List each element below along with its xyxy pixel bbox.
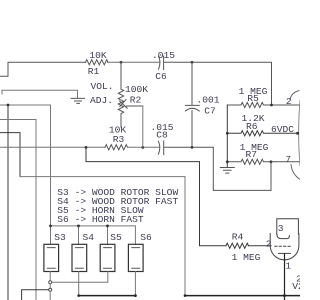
svg-text:.001: .001 bbox=[196, 95, 219, 106]
wire x50 vertical bbox=[50, 105, 52, 244]
top tube arcs bbox=[290, 91, 299, 100]
resistor R6 bbox=[227, 131, 297, 136]
resistor R5 bbox=[227, 102, 271, 107]
node x8 y105 bbox=[7, 104, 10, 107]
wire ground VOL bbox=[2, 90, 78, 97]
svg-text:10K: 10K bbox=[89, 50, 107, 61]
svg-text:R5: R5 bbox=[247, 93, 259, 104]
svg-text:2: 2 bbox=[266, 239, 272, 250]
wire S3-S5 bottoms bbox=[52, 272, 108, 283]
node R2 wiper bottom bbox=[141, 146, 144, 149]
bottom tube plate box pin3 bbox=[277, 219, 299, 234]
wire y176.6 bbox=[20, 176, 185, 178]
switch S5 box bbox=[100, 244, 115, 271]
node R7 right bbox=[270, 160, 273, 163]
ground rail bbox=[220, 168, 234, 174]
wire pin 7 bbox=[271, 161, 300, 163]
wire C6 to corner, down to R5 node bbox=[164, 62, 272, 105]
svg-text:2: 2 bbox=[286, 96, 292, 107]
wire pin 2 top tube bbox=[272, 104, 301, 106]
rail left of R5R6R7 bbox=[226, 105, 228, 167]
wire input left top bbox=[0, 62, 86, 76]
node S5 top bbox=[106, 225, 109, 228]
svg-text:R3: R3 bbox=[113, 134, 125, 145]
grid dashes pin2 bbox=[275, 245, 290, 247]
node R6 left bbox=[226, 132, 229, 135]
S6 bottom drop bbox=[134, 272, 136, 296]
svg-text:.015: .015 bbox=[152, 50, 175, 61]
wire x185.5 vertical bbox=[184, 177, 186, 296]
svg-text:S3: S3 bbox=[54, 232, 66, 243]
svg-text:R4: R4 bbox=[232, 232, 244, 243]
wire x8 vertical bbox=[7, 105, 9, 300]
plate foot bbox=[277, 234, 290, 238]
node C7 bottom bbox=[191, 146, 194, 149]
potentiometer R2 vertical bbox=[118, 62, 123, 127]
svg-text:1 MEG: 1 MEG bbox=[232, 252, 261, 263]
svg-text:7: 7 bbox=[285, 154, 291, 165]
svg-text:S6: S6 bbox=[140, 232, 152, 243]
capacitor C8 bbox=[158, 141, 159, 154]
node cathode lead on bus bbox=[283, 294, 286, 297]
wire left y119.5 to x36 down bbox=[0, 120, 36, 300]
cathode bbox=[279, 252, 291, 254]
wire y161.6 dark bbox=[86, 147, 226, 245]
node C6-C7 bbox=[191, 61, 194, 64]
svg-text:C6: C6 bbox=[155, 71, 167, 82]
svg-text:C8: C8 bbox=[156, 130, 168, 141]
wire left y105 bbox=[0, 104, 51, 106]
node bus B corner bbox=[184, 294, 187, 297]
wire R3 to C8 bbox=[128, 146, 160, 148]
switch S4 box bbox=[72, 244, 87, 271]
wire C8 right bbox=[164, 147, 271, 190]
svg-text:3: 3 bbox=[278, 223, 284, 234]
svg-text:100K: 100K bbox=[125, 84, 148, 95]
svg-text:R7: R7 bbox=[245, 149, 257, 160]
switch S6 box bbox=[128, 244, 143, 271]
svg-text:S5: S5 bbox=[110, 232, 122, 243]
node R1-R2 bbox=[120, 61, 123, 64]
wire left y132.6 dark to x20 down to y176.6 right bbox=[0, 133, 20, 177]
bottom tube V1 envelope bbox=[270, 234, 299, 260]
wire S3 circle2 left down bbox=[22, 290, 49, 300]
S3 bottom terminals bbox=[49, 272, 51, 281]
resistor R3 bbox=[105, 145, 128, 150]
bottom bus bbox=[79, 295, 136, 297]
wire R1 to C6 bbox=[108, 61, 160, 63]
svg-text:VOL.: VOL. bbox=[90, 81, 113, 92]
svg-text:R2: R2 bbox=[130, 95, 142, 106]
node 6VDC at tube V2 envelope bbox=[296, 132, 299, 135]
wire R4 to pin2 bbox=[248, 245, 271, 247]
node S3 top bbox=[49, 225, 52, 228]
node S6 bottom on bus bbox=[134, 294, 137, 297]
S4 bottom drop bbox=[78, 272, 80, 296]
node R5 right bbox=[270, 104, 273, 107]
svg-text:S4: S4 bbox=[83, 232, 95, 243]
resistor R1 bbox=[86, 60, 109, 65]
svg-text:S6 -> HORN FAST: S6 -> HORN FAST bbox=[57, 214, 144, 225]
svg-text:V2: V2 bbox=[292, 281, 300, 292]
wire R3 line left bbox=[0, 146, 105, 148]
switch S3 box bbox=[44, 244, 59, 271]
cathode lead pin1 bbox=[284, 254, 286, 300]
svg-text:R1: R1 bbox=[88, 66, 100, 77]
svg-text:1: 1 bbox=[285, 261, 291, 272]
capacitor C6 bbox=[159, 56, 160, 69]
node S4 top bbox=[77, 225, 80, 228]
resistor R4 bbox=[226, 243, 249, 248]
R2 wiper arrow bbox=[120, 100, 143, 109]
wire S4 S5 top drops bbox=[79, 226, 108, 244]
switch top bus bbox=[51, 226, 136, 244]
R2 wiper down bbox=[142, 106, 144, 147]
svg-text:ADJ.: ADJ. bbox=[90, 95, 113, 106]
node R7 left bbox=[226, 160, 229, 163]
svg-text:R6: R6 bbox=[246, 121, 258, 132]
capacitor C7 bbox=[185, 62, 199, 147]
svg-text:C7: C7 bbox=[204, 106, 216, 117]
resistor R7 bbox=[227, 159, 271, 164]
node R3 left bbox=[85, 146, 88, 149]
node S4 bus corner bbox=[77, 294, 80, 297]
svg-text:6VDC: 6VDC bbox=[271, 124, 294, 135]
ground VOL bbox=[71, 98, 85, 103]
